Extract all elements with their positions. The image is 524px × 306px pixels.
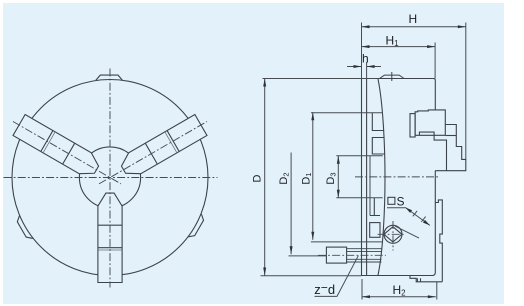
vertical centerline (109, 69, 111, 288)
D1 bottom extension (311, 241, 383, 243)
horizontal centerline (4, 177, 218, 179)
S oblique tick 2 (421, 217, 425, 222)
svg-text:H2: H2 (393, 283, 407, 298)
svg-text:D2: D2 (278, 172, 291, 184)
jaw block body (415, 110, 445, 135)
slideway rect upper A (372, 113, 384, 131)
H left extension (361, 23, 363, 79)
S oblique tick 1 (413, 211, 417, 216)
pinion circle (384, 225, 402, 243)
slideway rect lower B (370, 198, 380, 216)
H2 dim line (362, 296, 436, 298)
svg-text:h: h (362, 52, 369, 66)
body front face (361, 79, 363, 276)
bottom feet tooth (417, 278, 420, 282)
label square S (388, 197, 395, 204)
slideway rect lower A (370, 223, 380, 238)
svg-text:H: H (409, 12, 418, 26)
D3 bottom extension (336, 197, 382, 199)
D2 dim line (290, 153, 292, 255)
H right extension (465, 23, 467, 160)
pinion axis centerline (378, 233, 405, 235)
D2 bottom extension (289, 255, 327, 257)
bolt head (326, 247, 346, 263)
jaw block right steps (435, 125, 466, 171)
S extension line lower (395, 226, 419, 238)
key bump side (380, 72, 405, 81)
H1 arrows (362, 45, 370, 48)
D arrows (263, 79, 266, 87)
jaw block left strip (410, 114, 415, 137)
D1 top extension (311, 112, 383, 114)
h right extension (366, 62, 368, 79)
centerlines front view (4, 69, 218, 288)
H2 extensions (362, 279, 437, 300)
svg-text:z−d: z−d (314, 281, 335, 297)
h dim lines (347, 66, 381, 68)
H dim line (362, 26, 466, 28)
H2 arrows (362, 295, 370, 298)
chuck center circle (79, 147, 140, 208)
bottom feet (410, 276, 442, 282)
svg-text:D1: D1 (301, 172, 314, 184)
D dim line (264, 79, 266, 276)
svg-text:H1: H1 (386, 34, 400, 49)
svg-text:D3: D3 (325, 172, 338, 184)
D3 top extension (336, 155, 382, 157)
svg-text:S: S (397, 194, 405, 208)
key bump lower-right (188, 214, 206, 239)
slideway rect upper B (372, 138, 385, 155)
jaw block bottom tab (415, 132, 446, 171)
S label underline (387, 207, 405, 209)
jaw upper-right (117, 115, 207, 181)
pinion vertical centerline (392, 221, 394, 251)
key bump top (96, 75, 122, 80)
pinion square socket (384, 227, 402, 242)
h arrows (outside) (354, 65, 362, 68)
H1 right extension (434, 43, 436, 79)
jaw upper-left (13, 115, 103, 181)
arrowheads (263, 25, 466, 298)
S dim arrows (405, 207, 412, 213)
D3 dim line (337, 156, 339, 198)
side view centerlines (318, 177, 439, 255)
key bump lower-left (15, 216, 33, 241)
body bottom edge (362, 171, 436, 276)
S dim line diagonal (405, 207, 430, 225)
z-d leader (315, 256, 359, 297)
D1 arrows (311, 112, 314, 120)
body front face inner line (366, 79, 368, 276)
chuck body outer circle (12, 80, 208, 276)
barrel curve (378, 79, 385, 275)
H arrows (362, 25, 370, 28)
D3 bore edge line (369, 156, 371, 216)
jaw block step lower edge (445, 135, 456, 137)
D3 arrows (337, 156, 340, 164)
svg-text:D: D (252, 174, 264, 182)
diagonal centerline lower-left/upper-right (99, 122, 207, 184)
body top edge (362, 79, 436, 110)
D1 dim line (312, 112, 314, 240)
D2 bottom arrow (290, 246, 293, 254)
horizontal centerline side view (355, 176, 439, 178)
bolt centerline (318, 254, 386, 256)
D top extension (263, 78, 379, 80)
D bottom extension (261, 275, 362, 277)
H1 dim line (362, 46, 436, 48)
jaw bottom (98, 193, 122, 282)
backplate strip (435, 200, 442, 282)
bolt shank lines (347, 249, 382, 262)
diagonal centerline upper-left/lower-right (13, 122, 121, 184)
